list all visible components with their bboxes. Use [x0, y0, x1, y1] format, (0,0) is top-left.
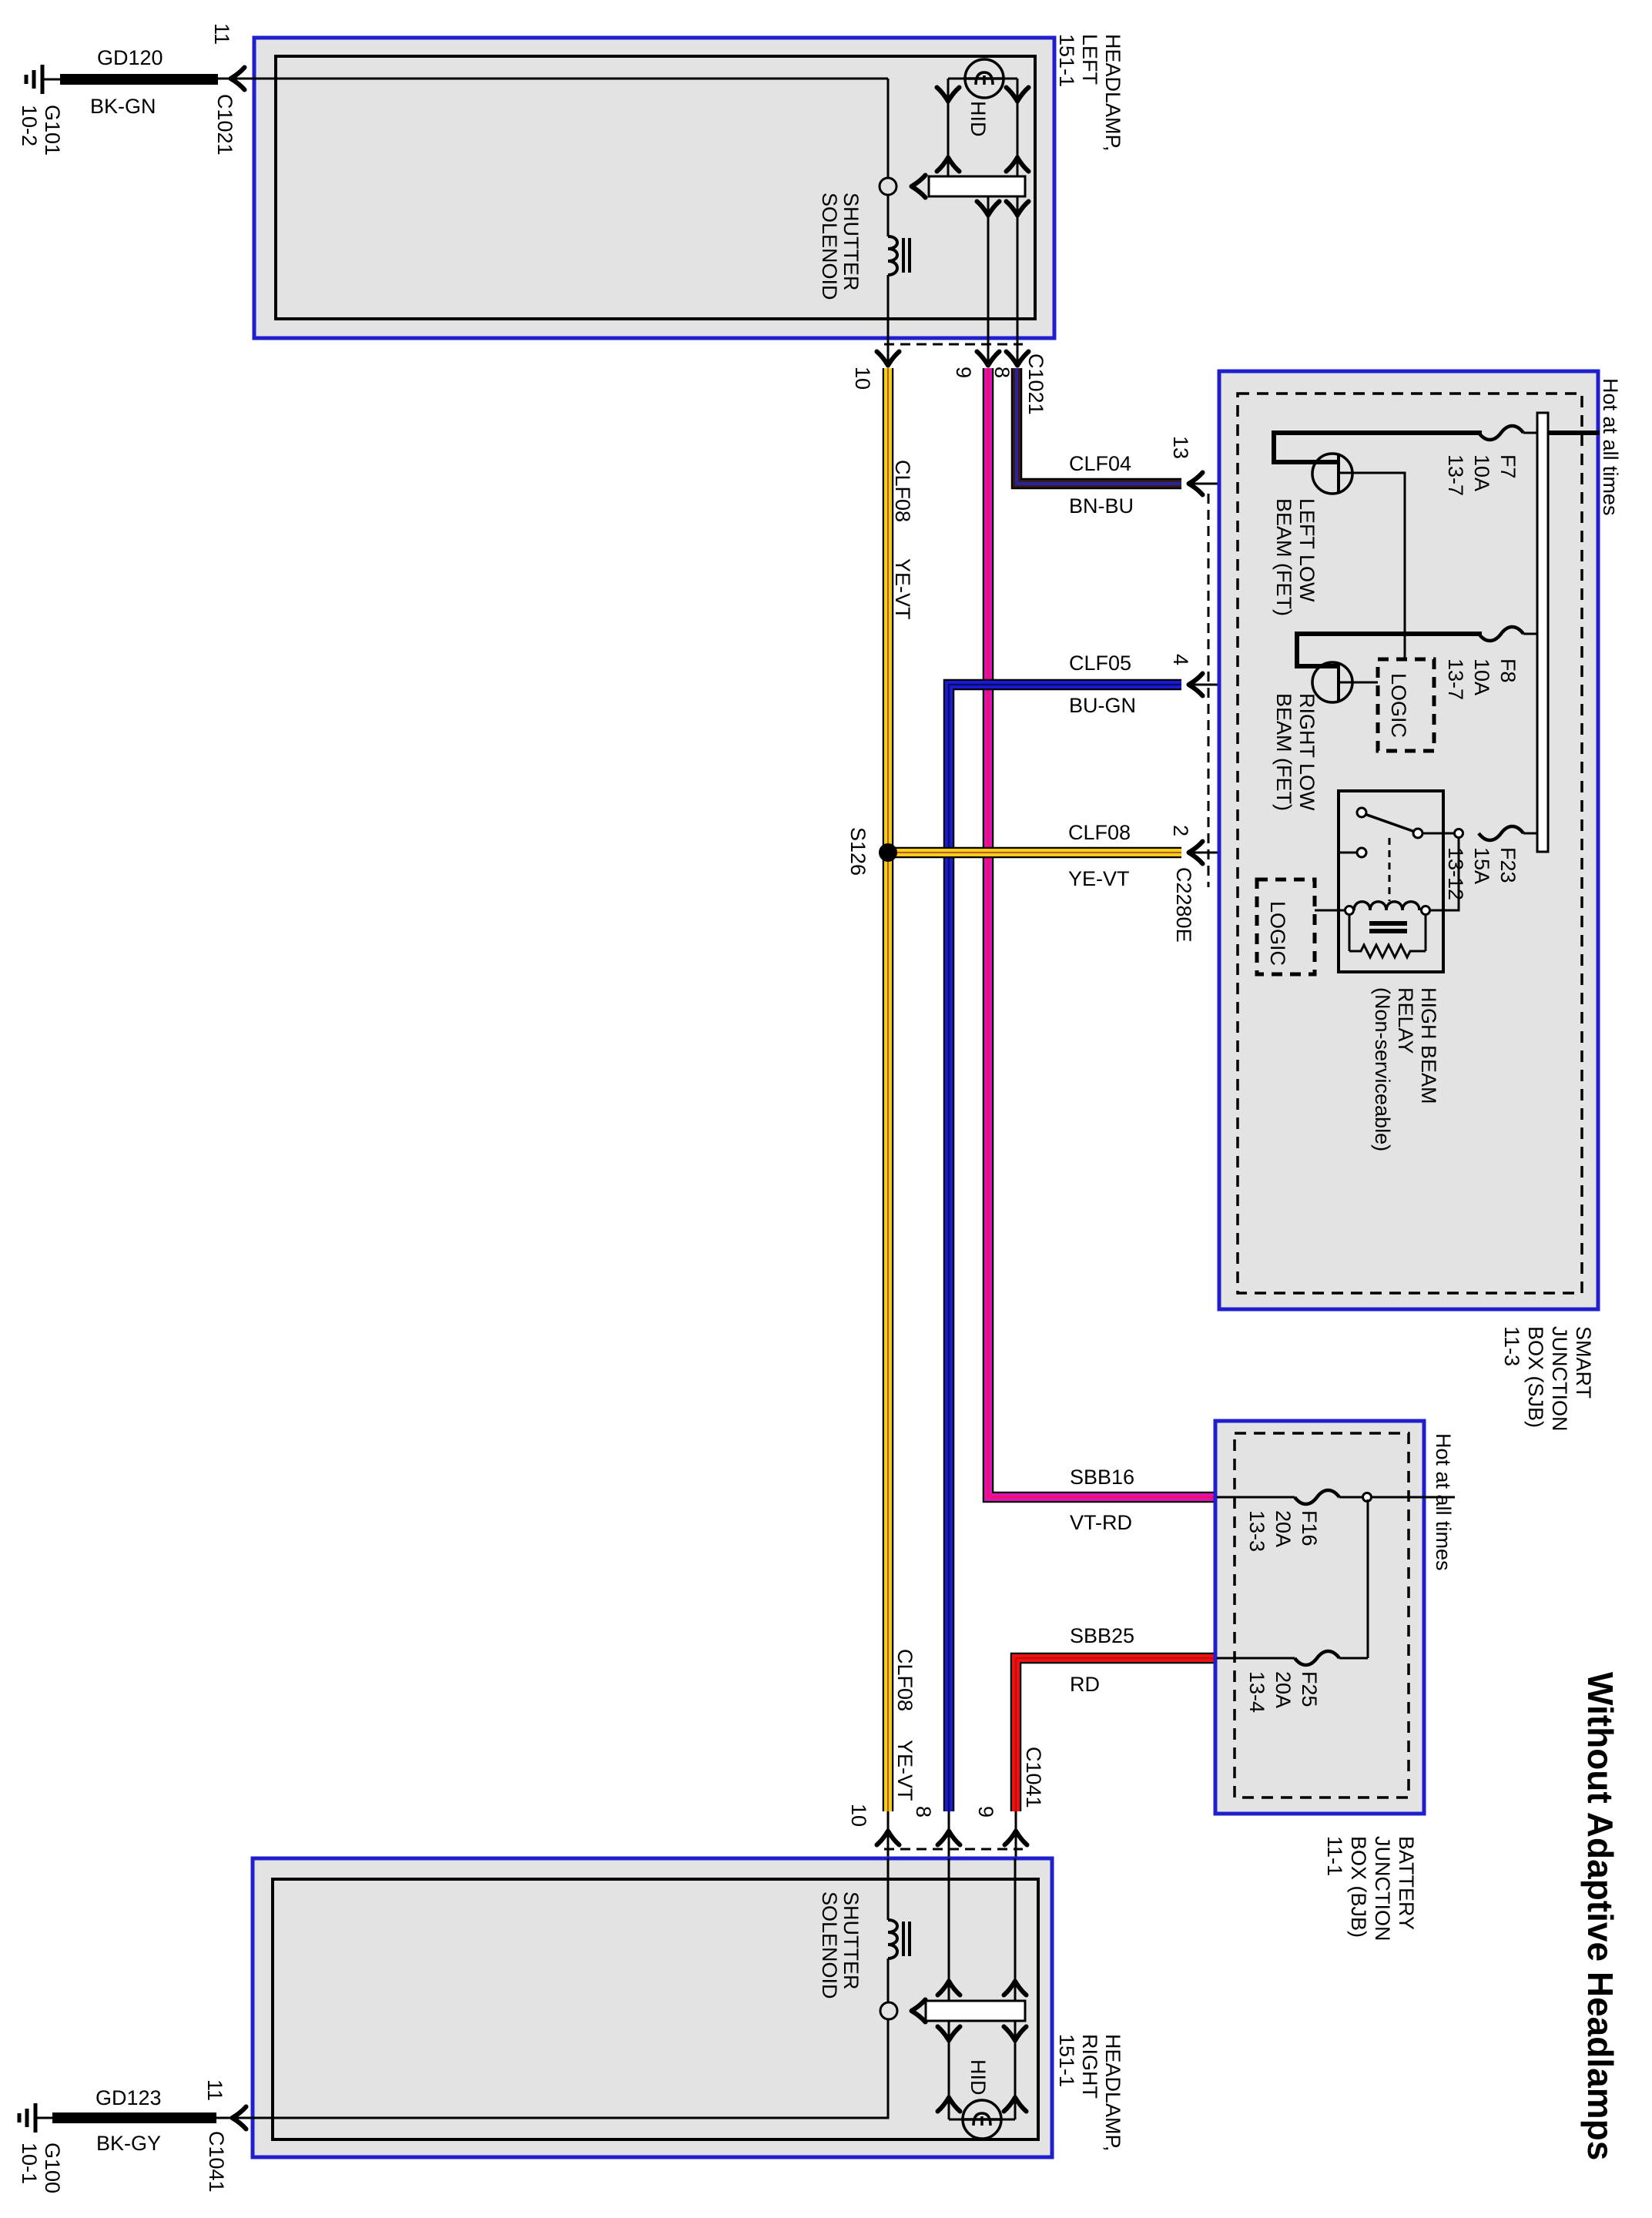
relay core bar 2	[1369, 929, 1407, 933]
wire F23 to relay	[1443, 833, 1463, 835]
relay contact lower	[1357, 848, 1366, 857]
feed wire hot at all times	[1548, 431, 1600, 435]
arrow pair left down	[937, 88, 960, 102]
svg-text:YE-VT: YE-VT	[891, 558, 914, 620]
svg-text:SHUTTERSOLENOID: SHUTTERSOLENOID	[818, 193, 863, 300]
svg-text:HID: HID	[967, 2059, 990, 2096]
arrow HID pair right	[1004, 2098, 1027, 2112]
wire pin9 to bar	[1014, 1858, 1017, 2001]
wire CLF05 BU-GN (blue)	[949, 685, 1181, 1811]
svg-text:CLF05: CLF05	[1069, 652, 1131, 675]
FET2 chord	[1337, 664, 1340, 701]
wire bus to fuse F23	[1523, 833, 1537, 835]
wire relay contact to pin2	[1339, 852, 1357, 854]
wire coil left to logic2	[1315, 910, 1345, 912]
headlamp right outer box	[253, 1858, 1052, 2157]
wire GD123 BK-GY thick ground strap	[52, 2112, 216, 2123]
connector arrow C1021 pin 11	[231, 68, 245, 90]
splice S126	[880, 844, 896, 861]
wire bar to HID right	[1014, 2021, 1017, 2119]
arrow HID pair left	[938, 2098, 960, 2112]
wire junction into relay	[1422, 833, 1455, 835]
smart junction box inner dashed	[1238, 394, 1582, 1293]
HID bulb left	[965, 77, 1004, 79]
relay core bar 1	[1369, 921, 1407, 926]
wire pin10 into box	[887, 1858, 890, 1920]
wire HID left stub	[948, 78, 966, 80]
wire GD120 BK-GN thick ground strap	[60, 74, 218, 85]
svg-text:Without Adaptive Headlamps: Without Adaptive Headlamps	[1580, 1672, 1620, 2160]
wire CLF08 YE-VT horizontal branch	[888, 847, 1181, 859]
arrow pin 8 bottom	[938, 1831, 960, 1845]
svg-text:SBB25: SBB25	[1070, 1624, 1134, 1647]
wire coil to pin 10	[887, 275, 890, 367]
connector arrow C1041 pin 11	[233, 2107, 246, 2129]
node junction F16	[1363, 1493, 1372, 1502]
wire pin8 to bar	[948, 1858, 950, 2001]
arrow above bar left	[938, 1982, 960, 1995]
wire HID stub right	[1001, 2119, 1015, 2121]
svg-text:RIGHT LOWBEAM (FET): RIGHT LOWBEAM (FET)	[1272, 693, 1319, 811]
wire pin13 to FET1	[1189, 483, 1314, 485]
bus bar	[1537, 413, 1548, 852]
arrow below bar right	[1004, 2027, 1027, 2041]
svg-text:BK-GY: BK-GY	[96, 2132, 161, 2155]
relay coil terminal left	[1345, 906, 1354, 915]
svg-text:GD120: GD120	[97, 46, 163, 69]
fuse F23	[1479, 826, 1523, 840]
svg-text:Hot at all times: Hot at all times	[1432, 1433, 1455, 1571]
wire pin2 to relay contact	[1189, 852, 1357, 854]
logic box 1	[1378, 659, 1434, 751]
wire bus to fuse F8	[1523, 633, 1537, 635]
arrow SJB pin 2	[1189, 842, 1203, 864]
svg-text:LOGIC: LOGIC	[1266, 901, 1289, 966]
connector C1021 dashed line	[884, 343, 1023, 346]
wire pin4 to FET2	[1189, 684, 1314, 686]
high beam relay box	[1339, 791, 1443, 972]
arrow pin 10	[877, 352, 900, 366]
svg-text:YE-VT: YE-VT	[1068, 867, 1130, 890]
relay resistor zigzag	[1349, 945, 1426, 957]
feed wire F8 to FET2 thick	[1297, 634, 1482, 666]
svg-text:LEFT LOWBEAM (FET): LEFT LOWBEAM (FET)	[1272, 498, 1319, 616]
wire SBB25 RD (red)	[1016, 1658, 1215, 1811]
node solenoid terminal circle right	[880, 2002, 897, 2019]
relay mechanical link dashed	[1389, 838, 1391, 901]
headlamp left inner box	[276, 56, 1035, 319]
wire CLF08 YE-VT vertical (yellow)	[883, 368, 894, 1811]
wire bar to pin 8	[1017, 196, 1019, 367]
wire SBB25 inside BJB	[1217, 1657, 1295, 1660]
wire SBB16 inside BJB	[1217, 1496, 1295, 1499]
wire bus to fuse F7	[1523, 432, 1537, 434]
svg-text:GD123: GD123	[96, 2086, 162, 2109]
battery junction box inner dashed	[1235, 1433, 1409, 1798]
arrow SJB pin 13	[1189, 473, 1203, 495]
svg-text:G10010-1: G10010-1	[18, 2143, 64, 2193]
svg-text:C2280E: C2280E	[1172, 867, 1195, 943]
wire coil to circle	[887, 1958, 890, 2002]
ground G100	[34, 2103, 38, 2133]
battery junction box outer	[1215, 1421, 1424, 1814]
svg-text:F1620A13-3: F1620A13-3	[1245, 1510, 1321, 1552]
svg-text:C1041: C1041	[205, 2131, 228, 2193]
relay contact upper	[1357, 808, 1366, 817]
svg-text:BATTERYJUNCTIONBOX (BJB)11-1: BATTERYJUNCTIONBOX (BJB)11-1	[1323, 1836, 1418, 1942]
node solenoid terminal circle	[880, 178, 896, 195]
arrow pin 9 bottom	[1005, 1831, 1027, 1845]
arrow above bar right	[1004, 1982, 1027, 1995]
svg-text:8: 8	[990, 367, 1014, 378]
node junction F23	[1455, 829, 1463, 838]
shutter solenoid coil right	[888, 1920, 897, 1958]
fuse F8	[1479, 627, 1523, 641]
svg-text:VT-RD: VT-RD	[1070, 1511, 1132, 1534]
svg-text:HEADLAMP,LEFT151-1: HEADLAMP,LEFT151-1	[1055, 34, 1124, 152]
arrow at shutter actuator	[912, 176, 926, 198]
arrow pair right down	[1007, 88, 1029, 102]
svg-text:4: 4	[1169, 654, 1192, 665]
relay coil	[1354, 902, 1419, 910]
svg-text:C1021: C1021	[1024, 353, 1047, 415]
shutter solenoid coil	[888, 236, 897, 275]
fuse F7	[1479, 426, 1523, 440]
connector C1041 dashed line	[884, 1848, 1023, 1851]
smart junction box outer	[1219, 371, 1598, 1309]
transistor FET1 left low beam	[1312, 454, 1352, 494]
arrow below bar left	[938, 2027, 960, 2041]
wire stub pin9 bottom	[1015, 1811, 1017, 1858]
wire thin to connector C1021 pin 11	[218, 78, 254, 80]
wire bar to HID left	[948, 2021, 950, 2119]
wire coil right riser	[1429, 837, 1459, 910]
svg-text:CLF08: CLF08	[893, 1649, 916, 1711]
wire SBB16 VT-RD (magenta)	[988, 368, 1215, 1497]
svg-text:10: 10	[847, 1804, 870, 1827]
wire solenoid to ground out	[216, 2019, 888, 2118]
FET1 chord	[1337, 454, 1340, 494]
svg-text:11: 11	[203, 2079, 226, 2101]
headlamp left outer box	[254, 38, 1054, 338]
svg-text:CLF08: CLF08	[891, 460, 914, 522]
wire HID-right down to bar	[1017, 79, 1019, 176]
relay switch blade	[1365, 814, 1415, 832]
wire CLF04 BN-BU (dark)	[1017, 368, 1181, 484]
wire F16 to junction	[1339, 1496, 1455, 1499]
svg-text:F2520A13-4: F2520A13-4	[1245, 1671, 1321, 1713]
svg-text:10: 10	[851, 367, 874, 390]
svg-text:HID: HID	[967, 101, 990, 137]
svg-text:G10110-2: G10110-2	[18, 105, 64, 156]
shutter actuator bar	[929, 176, 1025, 196]
arrow SJB pin 4	[1189, 674, 1203, 696]
svg-text:CLF08: CLF08	[1068, 821, 1131, 844]
wire inside headlamp left from pin 11	[241, 78, 888, 80]
feed wire F7 to FET1 thick	[1274, 433, 1482, 462]
wire riser F25 to F16	[1367, 1499, 1369, 1658]
arrow pin 10 bottom	[877, 1831, 900, 1845]
svg-text:SHUTTERSOLENOID: SHUTTERSOLENOID	[818, 1891, 863, 1999]
relay resistor leg right	[1425, 915, 1427, 951]
FET2 gate wire to logic	[1339, 682, 1378, 684]
wire HID right stub	[1003, 78, 1017, 80]
svg-text:Hot at all times: Hot at all times	[1599, 378, 1622, 516]
svg-text:BU-GN: BU-GN	[1069, 694, 1136, 717]
arrow pair left up	[937, 158, 960, 172]
relay resistor leg left	[1349, 915, 1351, 951]
svg-text:SBB16: SBB16	[1070, 1466, 1134, 1489]
svg-text:2: 2	[1169, 825, 1192, 836]
svg-text:YE-VT: YE-VT	[893, 1740, 916, 1801]
logic box 2	[1257, 879, 1315, 974]
relay coil terminal right	[1422, 906, 1430, 915]
arrow below bar pin8 line	[1007, 202, 1029, 216]
wire stub pin10 bottom	[887, 1811, 890, 1858]
wire bar to pin 9	[987, 196, 990, 367]
wire HID stub left	[949, 2119, 963, 2121]
arrow at shutter actuator right	[912, 2000, 926, 2022]
wire down to shutter solenoid	[887, 79, 890, 178]
wire HID-left down to bar	[947, 79, 950, 176]
svg-text:SMARTJUNCTIONBOX (SJB)11-3: SMARTJUNCTIONBOX (SJB)11-3	[1500, 1326, 1595, 1432]
svg-text:RD: RD	[1070, 1673, 1100, 1696]
svg-text:9: 9	[952, 367, 975, 378]
relay common contact	[1413, 829, 1422, 838]
svg-text:C1021: C1021	[213, 94, 236, 156]
FET1 gate wire to logic	[1339, 473, 1405, 659]
wire stub pin8 bottom	[948, 1811, 950, 1858]
svg-text:8: 8	[912, 1806, 935, 1818]
svg-text:13: 13	[1169, 436, 1192, 459]
svg-text:S126: S126	[846, 827, 870, 876]
svg-text:HEADLAMP,RIGHT151-1: HEADLAMP,RIGHT151-1	[1055, 2034, 1124, 2152]
arrow pair right up	[1007, 158, 1029, 172]
headlamp right inner box	[273, 1879, 1038, 2139]
ground G101	[41, 65, 45, 94]
HID bulb right	[963, 2118, 1001, 2120]
svg-text:CLF04: CLF04	[1069, 452, 1131, 475]
svg-text:BK-GN: BK-GN	[90, 95, 156, 118]
wire coil up	[887, 195, 890, 236]
fuse F16	[1295, 1490, 1339, 1504]
shutter actuator bar right	[926, 2001, 1025, 2021]
arrow pin 8	[1007, 352, 1029, 366]
svg-text:LOGIC: LOGIC	[1387, 673, 1410, 738]
transistor FET2 right low beam	[1312, 662, 1352, 702]
arrow below bar pin9 line	[977, 202, 1000, 216]
svg-text:BN-BU: BN-BU	[1069, 494, 1134, 518]
svg-text:11: 11	[210, 23, 233, 45]
svg-text:9: 9	[974, 1806, 997, 1818]
fuse F25	[1295, 1651, 1339, 1665]
connector C2280E dashed line	[1208, 494, 1210, 887]
wire F25 to riser	[1339, 1657, 1368, 1660]
svg-text:C1041: C1041	[1022, 1747, 1045, 1808]
wire junction to hot feed	[1371, 1496, 1424, 1499]
arrow pin 9	[977, 352, 1000, 366]
